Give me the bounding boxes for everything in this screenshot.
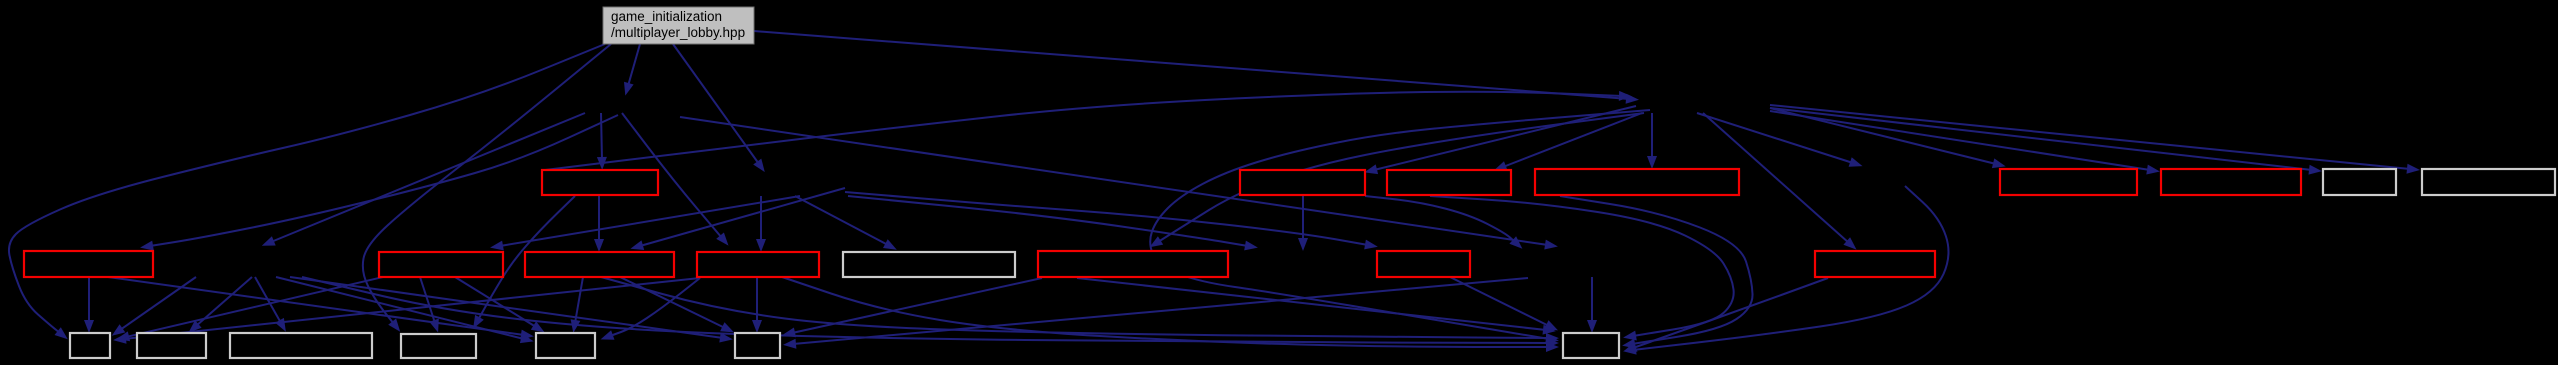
svg-text:/multiplayer_lobby.hpp: /multiplayer_lobby.hpp xyxy=(611,25,745,40)
svg-text:game_initialization: game_initialization xyxy=(611,9,722,24)
